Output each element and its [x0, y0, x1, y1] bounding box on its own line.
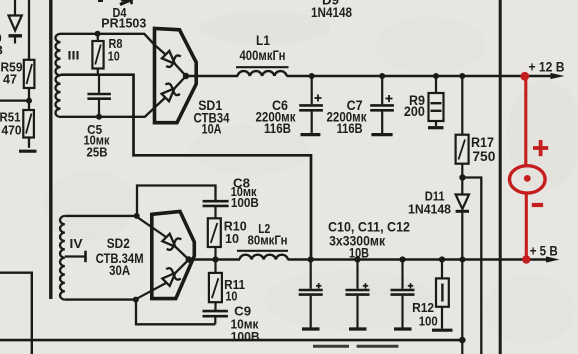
capacitor C6 — [256, 76, 323, 136]
border line right — [499, 0, 502, 354]
wire winding III bottom — [61, 116, 146, 118]
wire stub bottom left — [0, 273, 32, 354]
wire SD2 to L2 — [191, 258, 240, 261]
diode SD1 lower — [145, 76, 186, 117]
node junction — [133, 297, 139, 303]
svg-text:SD2: SD2 — [107, 236, 130, 251]
svg-text:116В: 116В — [264, 121, 291, 136]
wire bottom rail — [0, 339, 462, 342]
diode D4 (cut at top edge) — [98, 0, 132, 5]
wire to C8 — [137, 186, 216, 216]
wire — [28, 138, 30, 148]
svg-text:200: 200 — [404, 104, 425, 119]
arrow +5V — [546, 256, 560, 262]
svg-text:100В: 100В — [231, 329, 260, 344]
capacitor C9 — [203, 304, 260, 344]
diode D10 (partial, left edge) — [9, 0, 23, 44]
node junction R9 — [433, 73, 439, 79]
svg-text:PR1503: PR1503 — [101, 17, 146, 31]
svg-text:III: III — [68, 49, 80, 63]
svg-text:IV: IV — [70, 237, 84, 251]
rectifier SD2 outline — [152, 211, 195, 298]
cut component bars bottom — [313, 345, 398, 348]
node junction R10/R11 — [212, 256, 218, 262]
node junction C10 — [308, 256, 314, 262]
capacitor C10 — [299, 260, 323, 330]
wire — [28, 88, 30, 110]
wire SD1 to L1 — [186, 75, 238, 78]
diode D11 — [456, 178, 469, 354]
red junction on +5V rail — [522, 255, 530, 263]
capacitor C5 — [84, 75, 111, 160]
wire center tap III to common rail — [61, 75, 312, 260]
wire winding IV bottom — [65, 298, 136, 300]
svg-text:100: 100 — [419, 314, 438, 329]
diode SD2 lower — [162, 260, 189, 286]
node junction — [134, 213, 140, 219]
capacitor C8 — [203, 176, 259, 219]
svg-text:116В: 116В — [337, 121, 363, 136]
wire to border bus — [463, 178, 482, 354]
svg-text:10: 10 — [225, 288, 237, 303]
node junction D11 on +5V rail — [460, 257, 466, 263]
capacitor C7 — [327, 76, 394, 136]
wire to C9 bottom — [136, 300, 215, 325]
node SD1 output — [183, 73, 189, 79]
node junction C7 — [379, 73, 385, 79]
rectifier SD1 outline — [155, 28, 197, 122]
svg-text:+ 5 В: + 5 В — [530, 243, 558, 258]
svg-text:100В: 100В — [231, 196, 259, 210]
winding III — [56, 34, 61, 117]
red minus — [532, 203, 543, 207]
ground — [19, 150, 37, 153]
svg-text:10А: 10А — [202, 121, 222, 136]
red plus — [533, 140, 548, 156]
node junction bottom — [459, 337, 466, 344]
svg-text:L1: L1 — [256, 33, 270, 48]
diode SD2 upper — [162, 234, 189, 260]
node junction R17 — [459, 73, 465, 79]
node junction — [95, 31, 101, 37]
red wire lower — [525, 193, 528, 259]
arrow +12V — [551, 73, 565, 79]
svg-text:C10, C11, C12: C10, C11, C12 — [328, 219, 410, 235]
node junction — [26, 98, 32, 104]
wire +12V rail — [287, 75, 554, 78]
svg-text:R17: R17 — [471, 135, 494, 150]
wire +5V rail — [288, 258, 549, 261]
inductor L2 — [237, 221, 288, 260]
winding IV — [60, 216, 65, 300]
svg-text:25В: 25В — [87, 145, 108, 159]
capacitor C12 — [391, 260, 415, 330]
node junction R12 — [439, 256, 445, 262]
wire anode upper SD2 — [138, 217, 167, 237]
node junction — [96, 114, 102, 120]
svg-text:400мкГн: 400мкГн — [240, 48, 286, 63]
wire anode lower SD2 — [138, 283, 167, 298]
transformer core line — [49, 0, 52, 299]
wire to left edge — [0, 99, 29, 101]
svg-text:1N4148: 1N4148 — [311, 5, 352, 20]
svg-text:8: 8 — [0, 43, 3, 58]
red indicator dot — [524, 175, 531, 182]
svg-text:47: 47 — [3, 73, 17, 87]
wire winding IV top — [65, 215, 137, 217]
node junction C6 — [309, 73, 315, 79]
svg-text:750: 750 — [472, 149, 495, 164]
resistor R10 — [208, 218, 247, 259]
resistor R51 — [0, 110, 34, 138]
red indicator circle — [510, 166, 546, 193]
resistor R11 — [209, 260, 245, 311]
node SD2 output — [186, 256, 192, 262]
svg-text:10: 10 — [108, 50, 120, 64]
node junction C12 — [399, 256, 405, 262]
resistor R59 — [1, 60, 35, 88]
capacitor C11 — [346, 260, 370, 330]
wire left branch vertical — [28, 0, 30, 60]
svg-text:10: 10 — [225, 231, 239, 246]
winding IV tap — [65, 251, 86, 263]
diode SD1 upper — [154, 44, 186, 76]
node junction R17/D11 — [459, 174, 465, 180]
inductor L1 — [236, 33, 289, 76]
wire winding III top — [61, 34, 155, 45]
svg-text:R51: R51 — [0, 111, 21, 125]
svg-text:470: 470 — [2, 124, 22, 138]
resistor R12 — [412, 260, 452, 331]
red annotation: junction on +12V rail — [520, 72, 529, 81]
resistor R9 — [404, 76, 444, 128]
svg-text:1N4148: 1N4148 — [408, 201, 451, 216]
red wire upper — [524, 76, 527, 167]
svg-text:+ 12 В: + 12 В — [529, 60, 565, 75]
resistor R17 — [456, 76, 496, 178]
svg-text:80мкГн: 80мкГн — [248, 232, 288, 247]
node junction C11 — [354, 256, 360, 262]
svg-text:30А: 30А — [109, 263, 130, 278]
resistor R8 — [92, 34, 122, 75]
